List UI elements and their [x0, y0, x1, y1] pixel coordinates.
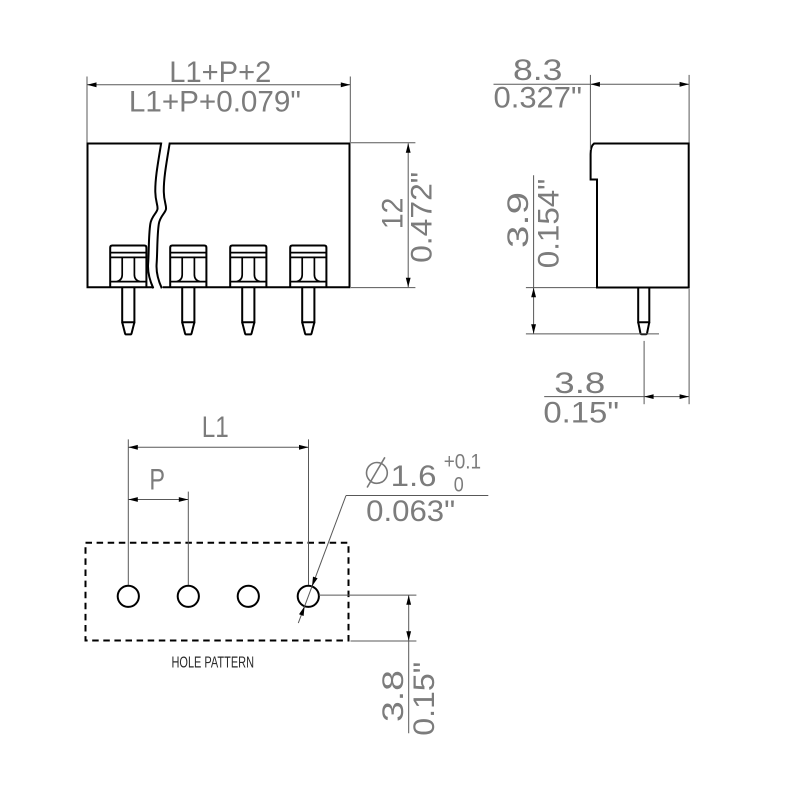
svg-text:P: P — [149, 464, 165, 497]
svg-text:0.154": 0.154" — [533, 179, 566, 269]
pin 4 — [290, 246, 326, 335]
svg-text:0.15": 0.15" — [408, 662, 441, 736]
svg-text:0.472": 0.472" — [406, 172, 439, 263]
svg-text:HOLE PATTERN: HOLE PATTERN — [172, 655, 255, 672]
break wavy lines — [148, 143, 170, 289]
svg-text:0.063": 0.063" — [366, 495, 455, 528]
side pin — [638, 288, 649, 323]
body rectangle — [88, 144, 350, 288]
pin 2 — [170, 246, 206, 335]
pin 3 — [230, 246, 266, 335]
svg-text:L1+P+0.079": L1+P+0.079" — [129, 85, 301, 118]
svg-text:0.15": 0.15" — [543, 397, 619, 430]
svg-text:+0.1: +0.1 — [444, 451, 481, 474]
holes — [118, 586, 319, 607]
svg-text:3.9: 3.9 — [502, 192, 535, 248]
svg-text:0: 0 — [454, 474, 464, 497]
svg-text:0.327": 0.327" — [494, 81, 583, 114]
pin 1 — [110, 246, 146, 335]
svg-text:L1+P+2: L1+P+2 — [169, 56, 271, 89]
svg-text:1.6: 1.6 — [391, 460, 437, 493]
svg-text:3.8: 3.8 — [554, 367, 605, 400]
dashed rectangle — [86, 543, 349, 641]
svg-text:3.8: 3.8 — [377, 670, 410, 722]
svg-text:L1: L1 — [202, 411, 229, 444]
break band (white) — [150, 142, 171, 290]
